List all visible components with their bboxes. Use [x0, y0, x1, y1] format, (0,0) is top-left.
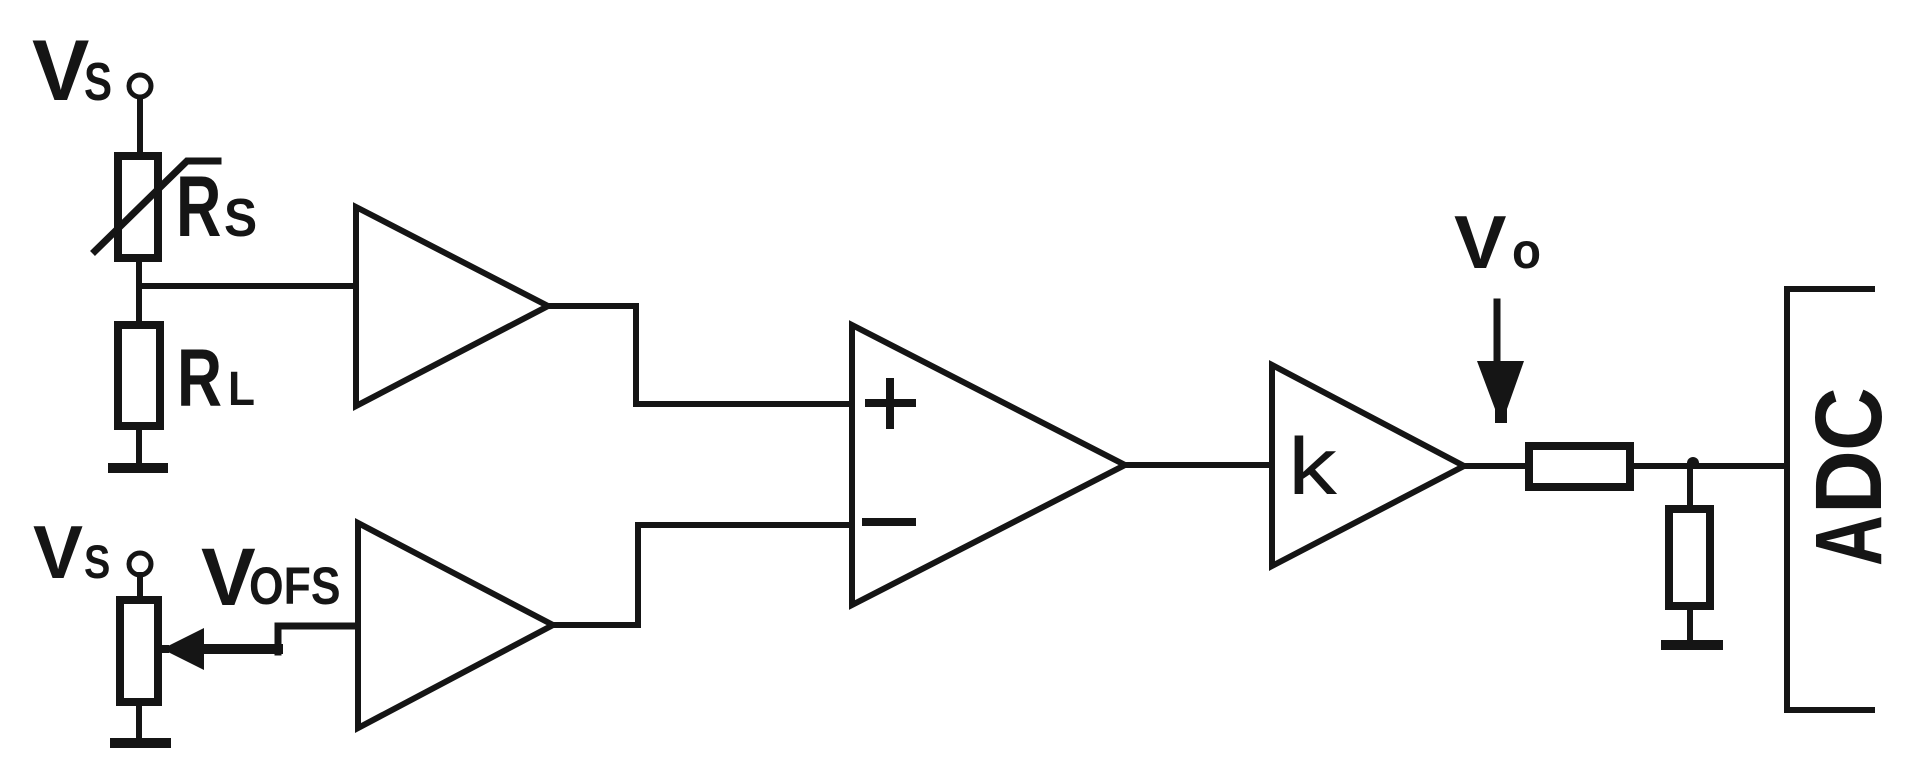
op-amp U3 (difference amplifier): [852, 325, 1125, 605]
op-amp U2 (bottom buffer): [358, 523, 553, 728]
wire shunt resistor to ground: [1687, 606, 1693, 640]
svg-text:R: R: [176, 158, 221, 254]
node Vs (bottom supply terminal): [33, 510, 151, 594]
svg-text:D: D: [1796, 450, 1902, 514]
wire RL to ground: [136, 426, 142, 463]
node Vs (top supply terminal): [32, 23, 151, 119]
wire U1 output to U3 + input: [548, 306, 852, 404]
svg-text:V: V: [32, 23, 89, 119]
svg-text:S: S: [224, 187, 257, 247]
wire Vs to Rs: [137, 98, 143, 156]
resistor Rs (variable sensor resistor): [95, 156, 257, 258]
svg-text:S: S: [84, 52, 112, 112]
ADC block: [1787, 289, 1902, 710]
svg-text:S: S: [84, 537, 110, 589]
svg-text:A: A: [1795, 515, 1902, 566]
resistor R3 (series): [1529, 446, 1630, 487]
wire potentiometer to ground: [136, 702, 142, 738]
svg-text:L: L: [228, 361, 255, 415]
svg-text:o: o: [1512, 224, 1541, 279]
svg-text:OFS: OFS: [249, 557, 341, 615]
wire k output to series resistor: [1464, 463, 1529, 469]
svg-text:V: V: [201, 532, 256, 623]
amplifier k (gain block): [1272, 365, 1464, 566]
label Vo with arrow: [1454, 201, 1541, 423]
svg-text:k: k: [1288, 422, 1338, 512]
wire Vs to potentiometer: [137, 575, 143, 600]
svg-text:C: C: [1796, 387, 1902, 451]
wire Rs to RL through node A: [136, 258, 142, 325]
resistor RL: [118, 325, 255, 426]
resistor R4 (shunt): [1669, 509, 1710, 606]
wire U3 output to amplifier k: [1125, 462, 1272, 468]
op-amp U1 (top buffer): [356, 207, 548, 406]
wire U2 output to U3 - input: [553, 525, 852, 625]
ground (below shunt resistor): [1666, 640, 1718, 650]
wire series resistor to ADC input: [1630, 463, 1784, 469]
svg-text:R: R: [177, 333, 222, 424]
wire node A to buffer U1 input: [139, 283, 356, 289]
ground (below RL): [113, 463, 163, 473]
ground (below potentiometer): [115, 738, 166, 748]
svg-text:V: V: [1454, 201, 1507, 285]
wire wiper to buffer U2 input: [200, 644, 278, 654]
wire junction to shunt resistor: [1687, 466, 1693, 509]
svg-text:V: V: [33, 510, 83, 594]
node junction: [1687, 457, 1699, 469]
potentiometer R2 (offset adjust): [120, 600, 204, 702]
label VOFS: [201, 532, 341, 623]
